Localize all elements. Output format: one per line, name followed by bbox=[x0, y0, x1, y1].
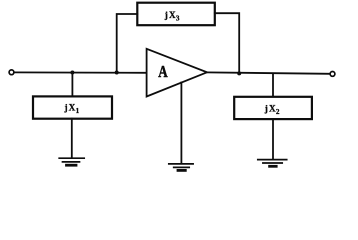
svg-text:jX1: jX1 bbox=[64, 102, 81, 115]
impedance jX3 (feedback) bbox=[137, 3, 215, 26]
svg-text:A: A bbox=[158, 62, 167, 81]
wire: op-amp ground lead bbox=[180, 82, 182, 163]
svg-text:jX2: jX2 bbox=[264, 104, 281, 117]
output terminal (right circle) bbox=[330, 72, 335, 77]
node: feedback meets output bbox=[237, 71, 241, 75]
input terminal (left circle) bbox=[9, 70, 14, 75]
impedance jX1 bbox=[33, 96, 112, 118]
wire: down to jX1 top bbox=[71, 73, 73, 97]
op-amp A bbox=[147, 49, 207, 97]
wire: jX2 bottom to ground bbox=[272, 119, 274, 159]
wire: input to op-amp input bbox=[14, 71, 147, 73]
wire: op-amp output to output terminal bbox=[207, 72, 330, 73]
ground (right) bbox=[258, 160, 287, 167]
wire: up-left leg of feedback branch bbox=[117, 14, 138, 73]
impedance jX2 bbox=[234, 97, 312, 119]
ground (middle) bbox=[169, 164, 193, 171]
svg-text:jX3: jX3 bbox=[164, 10, 181, 23]
wire: jX1 bottom to ground bbox=[71, 119, 73, 158]
wire: down to jX2 top bbox=[272, 74, 274, 97]
node: junction to jX3 branch bbox=[115, 71, 119, 75]
ground (left) bbox=[59, 158, 84, 165]
node: junction to jX1 bbox=[70, 71, 74, 75]
wire: right leg of feedback branch down to output bbox=[215, 13, 239, 73]
